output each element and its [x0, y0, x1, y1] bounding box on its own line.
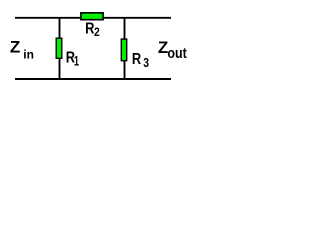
resistor R3 — [121, 39, 126, 61]
svg-text:out: out — [167, 45, 186, 62]
resistor R2 — [81, 13, 103, 20]
wire left vertical branch — [59, 18, 61, 79]
svg-text:in: in — [23, 47, 34, 61]
svg-text:R: R — [132, 51, 142, 68]
resistor R1 — [56, 38, 62, 58]
svg-text:2: 2 — [94, 25, 100, 39]
wire top horizontal — [15, 17, 171, 19]
svg-text:Z: Z — [10, 38, 20, 57]
wire bottom horizontal — [15, 78, 171, 80]
svg-text:1: 1 — [74, 52, 79, 68]
wire right vertical branch — [124, 18, 126, 79]
svg-text:3: 3 — [143, 56, 149, 70]
